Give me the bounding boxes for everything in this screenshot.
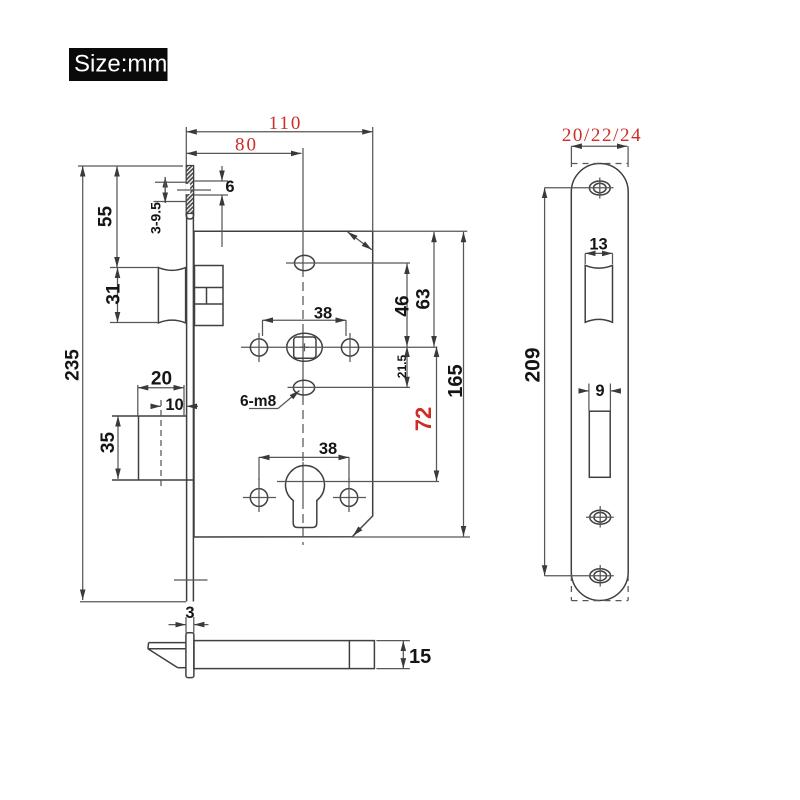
svg-text:6: 6 bbox=[225, 178, 234, 196]
svg-text:110: 110 bbox=[269, 113, 303, 134]
svg-text:31: 31 bbox=[104, 283, 125, 305]
svg-text:63: 63 bbox=[414, 288, 435, 309]
svg-text:20: 20 bbox=[151, 369, 172, 390]
svg-text:20/22/24: 20/22/24 bbox=[562, 125, 642, 146]
svg-text:6-m8: 6-m8 bbox=[240, 393, 277, 410]
svg-text:46: 46 bbox=[393, 295, 414, 316]
svg-text:80: 80 bbox=[235, 135, 258, 156]
svg-text:72: 72 bbox=[411, 407, 436, 431]
svg-text:9: 9 bbox=[595, 382, 604, 400]
svg-text:Size:mm: Size:mm bbox=[74, 51, 167, 78]
svg-text:15: 15 bbox=[409, 646, 431, 668]
svg-text:13: 13 bbox=[589, 236, 607, 254]
svg-text:38: 38 bbox=[314, 305, 332, 323]
svg-text:165: 165 bbox=[445, 364, 467, 397]
svg-text:3-9.5: 3-9.5 bbox=[148, 202, 164, 234]
svg-text:3: 3 bbox=[185, 604, 194, 622]
svg-text:38: 38 bbox=[319, 440, 337, 458]
svg-text:21.5: 21.5 bbox=[395, 354, 409, 378]
svg-text:55: 55 bbox=[96, 206, 117, 228]
svg-text:235: 235 bbox=[63, 349, 84, 381]
svg-text:10: 10 bbox=[165, 396, 183, 414]
svg-text:209: 209 bbox=[522, 347, 545, 382]
svg-text:35: 35 bbox=[98, 432, 119, 454]
